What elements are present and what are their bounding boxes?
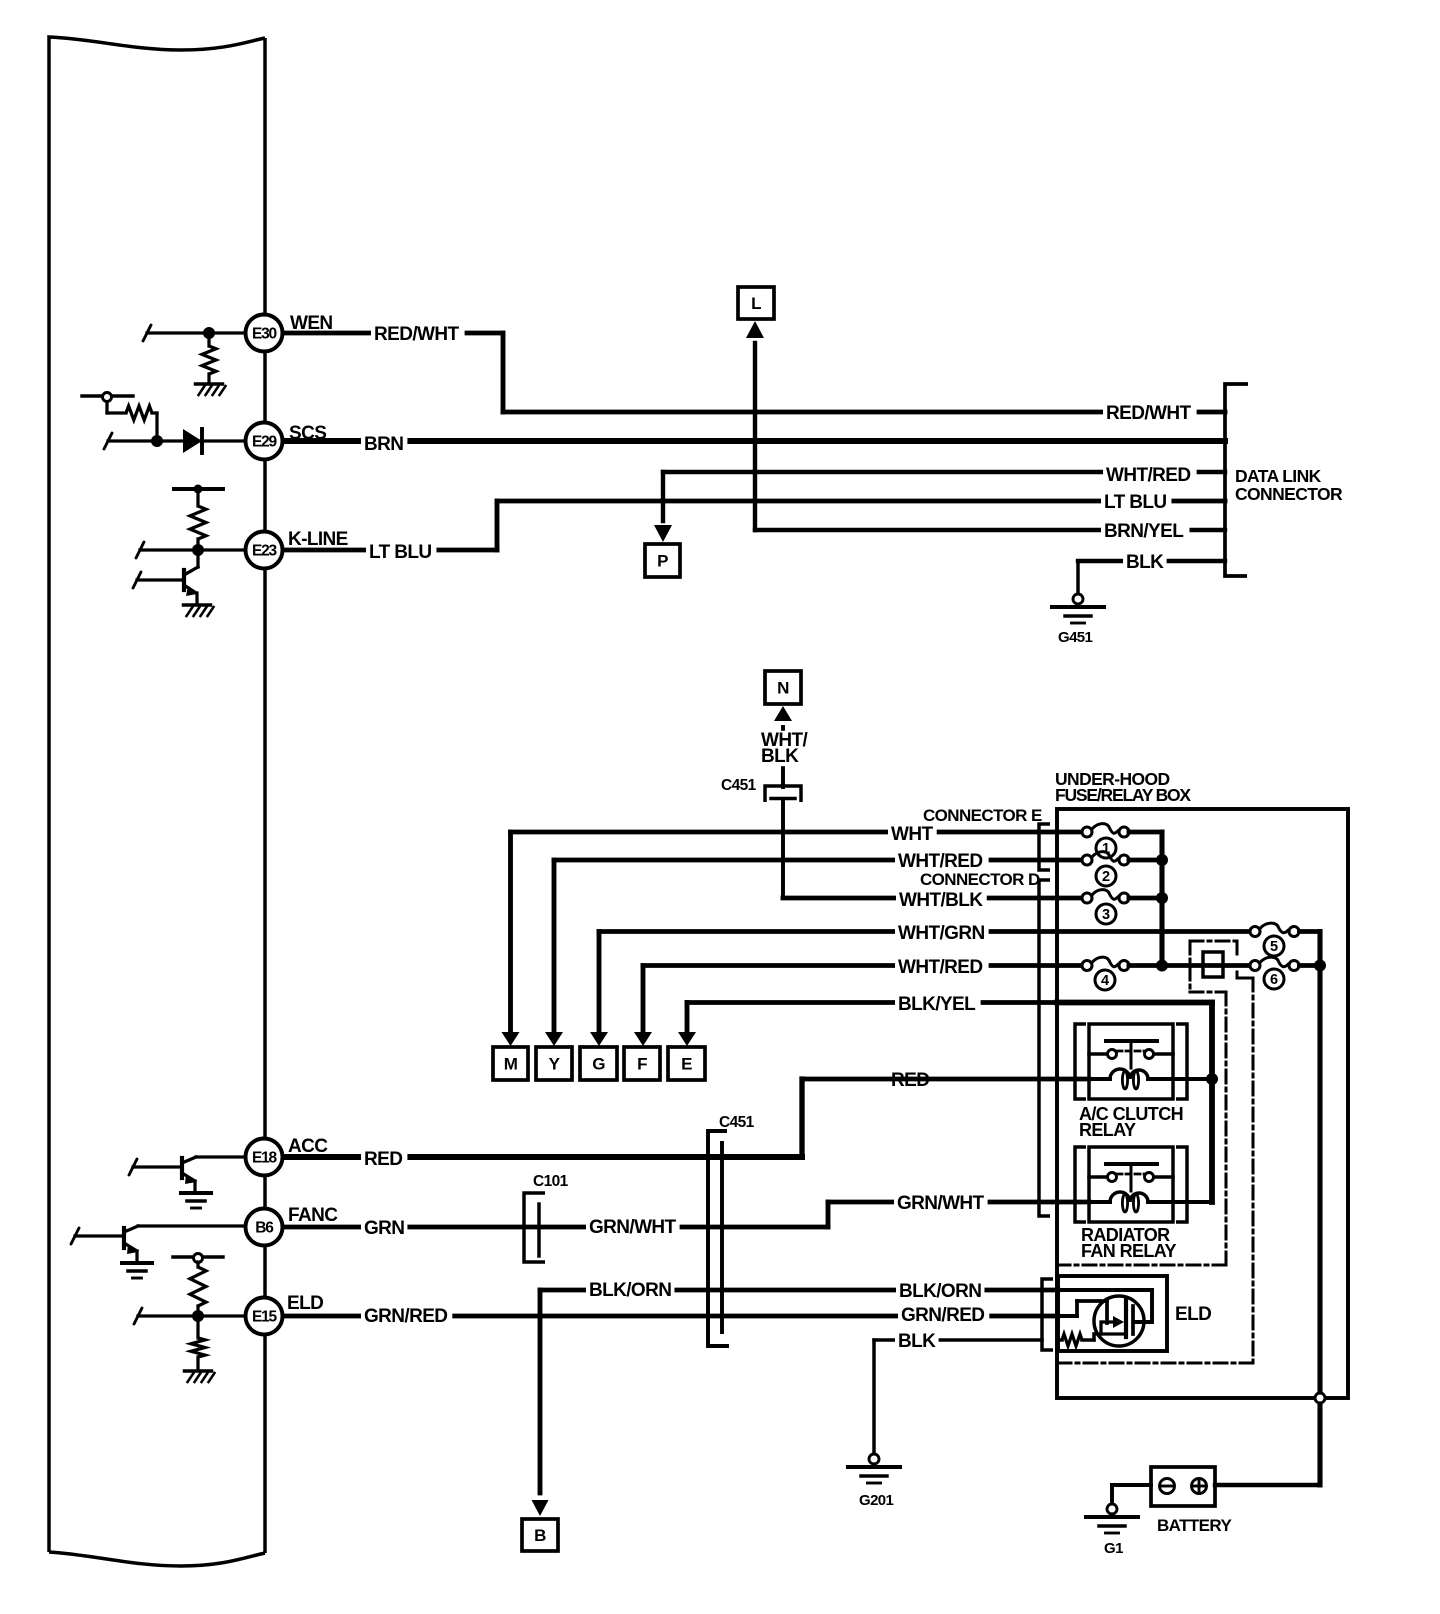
svg-text:CONNECTOR: CONNECTOR: [1235, 484, 1343, 504]
svg-text:G201: G201: [859, 1492, 894, 1509]
svg-text:BLK/ORN: BLK/ORN: [899, 1281, 981, 1302]
svg-text:N: N: [777, 679, 789, 698]
svg-text:SCS: SCS: [289, 423, 326, 444]
svg-text:C451: C451: [721, 777, 757, 794]
svg-text:LT BLU: LT BLU: [369, 542, 432, 563]
svg-text:C101: C101: [533, 1173, 569, 1190]
svg-text:G1: G1: [1104, 1540, 1123, 1557]
svg-text:Y: Y: [549, 1055, 561, 1074]
svg-text:BLK/ORN: BLK/ORN: [589, 1280, 671, 1301]
svg-text:BLK: BLK: [761, 746, 799, 767]
svg-text:M: M: [504, 1055, 518, 1074]
svg-text:RED/WHT: RED/WHT: [374, 324, 459, 345]
svg-text:RED: RED: [364, 1149, 402, 1170]
svg-text:CONNECTOR D: CONNECTOR D: [920, 870, 1040, 889]
svg-text:WHT/RED: WHT/RED: [898, 851, 982, 872]
svg-text:GRN/WHT: GRN/WHT: [589, 1217, 677, 1238]
svg-text:BLK/YEL: BLK/YEL: [898, 994, 976, 1015]
svg-text:FANC: FANC: [288, 1205, 338, 1226]
svg-text:WHT/RED: WHT/RED: [898, 957, 982, 978]
svg-text:RED/WHT: RED/WHT: [1106, 403, 1191, 424]
svg-text:G451: G451: [1058, 629, 1093, 646]
svg-text:GRN: GRN: [364, 1218, 404, 1239]
svg-text:CONNECTOR E: CONNECTOR E: [923, 806, 1042, 825]
svg-text:K-LINE: K-LINE: [288, 529, 348, 550]
svg-text:ELD: ELD: [1175, 1304, 1211, 1325]
svg-text:WEN: WEN: [290, 313, 333, 334]
svg-text:BLK: BLK: [898, 1331, 936, 1352]
svg-text:GRN/WHT: GRN/WHT: [897, 1193, 985, 1214]
svg-text:P: P: [657, 552, 668, 571]
svg-text:F: F: [637, 1055, 647, 1074]
svg-text:C451: C451: [719, 1114, 755, 1131]
svg-text:E18: E18: [252, 1149, 278, 1166]
svg-text:WHT/RED: WHT/RED: [1106, 465, 1190, 486]
svg-text:LT BLU: LT BLU: [1104, 492, 1167, 513]
svg-text:L: L: [751, 294, 761, 313]
svg-text:GRN/RED: GRN/RED: [901, 1305, 984, 1326]
svg-text:E23: E23: [252, 542, 278, 559]
svg-text:E15: E15: [252, 1308, 278, 1325]
svg-text:WHT: WHT: [891, 824, 933, 845]
svg-text:WHT/BLK: WHT/BLK: [899, 890, 983, 911]
svg-text:4: 4: [1101, 973, 1109, 989]
svg-text:FAN RELAY: FAN RELAY: [1081, 1241, 1177, 1261]
svg-text:BRN/YEL: BRN/YEL: [1104, 521, 1184, 542]
svg-text:2: 2: [1102, 869, 1110, 885]
svg-text:FUSE/RELAY BOX: FUSE/RELAY BOX: [1055, 785, 1191, 805]
svg-text:ACC: ACC: [288, 1136, 328, 1157]
svg-text:DATA LINK: DATA LINK: [1235, 466, 1322, 486]
svg-text:GRN/RED: GRN/RED: [364, 1306, 447, 1327]
svg-text:B6: B6: [255, 1219, 274, 1236]
svg-text:B: B: [534, 1526, 546, 1545]
svg-text:E30: E30: [252, 325, 277, 342]
svg-text:E: E: [681, 1055, 692, 1074]
svg-text:ELD: ELD: [287, 1293, 323, 1314]
svg-text:3: 3: [1102, 907, 1110, 923]
svg-text:WHT/GRN: WHT/GRN: [898, 923, 985, 944]
svg-text:RELAY: RELAY: [1079, 1120, 1136, 1140]
svg-text:BLK: BLK: [1126, 552, 1164, 573]
svg-text:BATTERY: BATTERY: [1157, 1516, 1232, 1535]
svg-text:BRN: BRN: [364, 434, 403, 455]
svg-text:5: 5: [1270, 939, 1278, 955]
svg-text:E29: E29: [252, 433, 278, 450]
svg-text:6: 6: [1270, 972, 1278, 988]
svg-text:G: G: [592, 1055, 605, 1074]
